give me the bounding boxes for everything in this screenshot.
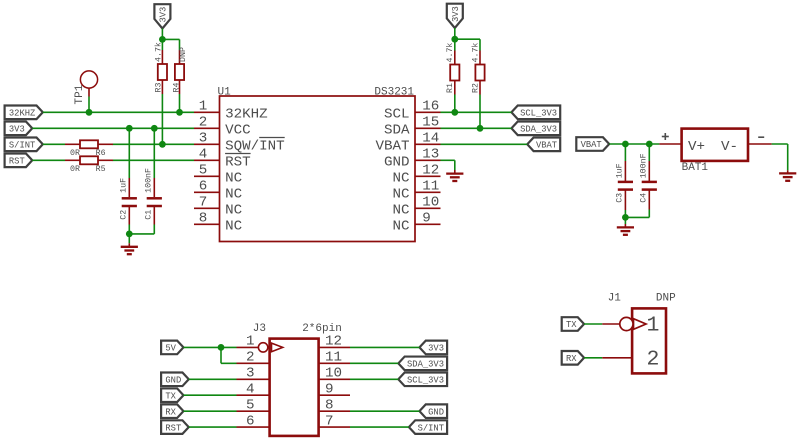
U1 pin 3 stub (194, 143, 220, 145)
U1 pin 8 stub (194, 223, 220, 225)
J3 pin 1 stub (237, 346, 270, 348)
U1 pin 4 number (199, 147, 208, 163)
svg-text:BAT1: BAT1 (682, 162, 709, 174)
svg-text:3V3: 3V3 (9, 125, 25, 135)
svg-text:13: 13 (422, 147, 439, 163)
svg-text:3: 3 (199, 131, 208, 147)
svg-text:VCC: VCC (225, 122, 251, 138)
U1 pin 3 name SQW/INT (225, 138, 285, 154)
U1 pin 4 stub (194, 159, 220, 161)
junction VBAT/C3 (622, 141, 629, 148)
R4 value DNP (179, 47, 188, 62)
BAT1 pin V- (721, 139, 738, 155)
U1 pin 9 stub (415, 223, 441, 225)
net flag S/INT (5, 138, 43, 152)
svg-text:12: 12 (325, 334, 342, 350)
R2 name (471, 83, 480, 93)
junction C3/C4/GND (622, 214, 629, 221)
svg-text:TP1: TP1 (74, 84, 86, 104)
U1 pin 16 name SCL (384, 106, 410, 122)
J3 pin 10 number (325, 366, 342, 382)
svg-text:SQW/INT: SQW/INT (225, 138, 285, 154)
J3 pin 10 stub (319, 378, 350, 380)
U1 pin 7 number (199, 195, 208, 211)
wire GND pin13 (441, 160, 455, 173)
resistor R1 (450, 51, 459, 95)
U1 pin 2 number (199, 115, 208, 131)
U1 pin 16 number (422, 99, 439, 115)
svg-text:TX: TX (165, 391, 176, 401)
svg-text:8: 8 (199, 211, 208, 227)
U1 pin 14 number (422, 131, 439, 147)
svg-text:3V3: 3V3 (159, 7, 169, 23)
supply symbol 3V3 (right) (447, 4, 463, 28)
C1 name (144, 210, 153, 220)
wire RX to pin5 (183, 410, 236, 412)
svg-text:1uF: 1uF (119, 178, 128, 193)
svg-text:SDA: SDA (384, 122, 410, 138)
test point TP1 pad (80, 71, 97, 88)
battery BAT1 right lead (748, 143, 772, 145)
U1 pin 5 number (199, 163, 208, 179)
capacitor C1 (147, 198, 162, 206)
svg-text:NC: NC (392, 170, 409, 186)
svg-text:SDA_3V3: SDA_3V3 (520, 125, 557, 135)
C3 value 1uF (616, 163, 625, 178)
svg-text:DNP: DNP (656, 293, 676, 305)
net flag VBAT (battery) (576, 137, 609, 151)
wire to ground (C3 C4) (624, 217, 626, 227)
overline on INT of SQW/INT (259, 137, 285, 139)
svg-text:8: 8 (325, 397, 334, 413)
U1 pin 14 stub (415, 143, 441, 145)
svg-text:GND: GND (165, 375, 181, 385)
junction 3V3/R1/R2 (451, 36, 458, 43)
svg-text:9: 9 (325, 382, 334, 398)
net flag TX (J1) (562, 317, 584, 331)
wire jog to R2 (455, 39, 480, 50)
connector J3 body (270, 339, 319, 436)
wire R3 top (161, 39, 163, 50)
net flag SDA_3V3 (511, 122, 560, 136)
wire SDA row (441, 127, 512, 129)
U1 pin 1 stub (194, 111, 220, 113)
R1 value 4.7k (445, 43, 455, 63)
wire pin12 to 3V3 (350, 346, 419, 348)
svg-text:1: 1 (246, 334, 255, 350)
svg-text:R3: R3 (155, 83, 164, 93)
svg-text:2: 2 (199, 115, 208, 131)
svg-text:7: 7 (199, 195, 208, 211)
ground (battery) (779, 173, 796, 180)
wire C4 bottom (625, 190, 649, 218)
svg-text:VBAT: VBAT (581, 140, 602, 150)
battery BAT1 body (682, 129, 748, 161)
svg-text:J1: J1 (608, 293, 622, 305)
U1 pin 12 stub (415, 175, 441, 177)
junction VCC/C2 (126, 125, 133, 132)
resistor R5 (65, 156, 113, 164)
U1 pin 13 name GND (384, 154, 410, 170)
wire R5 to pin4 (113, 159, 194, 161)
svg-text:15: 15 (422, 115, 439, 131)
svg-text:0R: 0R (70, 165, 80, 174)
J3 pin 6 stub (237, 426, 270, 428)
net flag 32KHZ (5, 106, 43, 120)
J1 name label (608, 293, 622, 305)
ground (under C1 C2) (121, 247, 138, 254)
C4 name (640, 193, 649, 203)
junction 5V/pin2 (218, 344, 225, 351)
wire pin8 to GND (350, 410, 419, 412)
svg-text:SCL: SCL (384, 106, 410, 122)
U1 pin 7 name NC (225, 202, 242, 218)
J3 pin 7 number (325, 413, 334, 429)
svg-text:5: 5 (246, 397, 255, 413)
svg-text:16: 16 (422, 99, 439, 115)
ground (pin 13) (446, 174, 463, 181)
U1 pin 11 number (422, 179, 439, 195)
U1 pin 5 name NC (225, 170, 242, 186)
svg-text:1: 1 (647, 314, 660, 338)
svg-text:14: 14 (422, 131, 439, 147)
U1 pin 8 number (199, 211, 208, 227)
svg-text:NC: NC (225, 170, 242, 186)
J3 value label 2*6pin (302, 323, 342, 335)
wire GND to pin3 (189, 378, 237, 380)
svg-text:6: 6 (199, 179, 208, 195)
wire pin11 to SDA_3V3 (350, 362, 398, 364)
svg-text:1uF: 1uF (616, 163, 625, 178)
J3 pin 7 stub (319, 426, 350, 428)
svg-text:V-: V- (721, 139, 738, 155)
J1 value label DNP (656, 293, 676, 305)
wire 5V to pin2 (221, 347, 237, 363)
svg-text:DNP: DNP (179, 47, 188, 62)
wire R3 bottom to SQW (161, 94, 163, 144)
svg-text:C4: C4 (640, 193, 649, 203)
wire 3V3 supply stub (right) (454, 28, 456, 39)
svg-text:SDA_3V3: SDA_3V3 (407, 360, 444, 370)
wire TX to J1 pin1 (584, 323, 602, 325)
wire 3V3/VCC row (32, 127, 194, 129)
wire VBAT to C3 (624, 144, 626, 181)
U1 name label (218, 87, 232, 99)
J3 pin 5 stub (237, 410, 270, 412)
svg-text:VBAT: VBAT (536, 141, 557, 151)
wire pin7 to S/INT (350, 426, 409, 428)
svg-text:4.7k: 4.7k (154, 42, 164, 62)
svg-text:RST: RST (9, 157, 25, 167)
net flag VBAT (pin14) (527, 138, 560, 152)
J3 pin 5 number (246, 397, 255, 413)
svg-text:C1: C1 (144, 210, 153, 220)
U1 pin 11 stub (415, 191, 441, 193)
svg-text:C2: C2 (119, 210, 128, 220)
U1 pin 12 name NC (392, 170, 409, 186)
wire R2 bottom to SDA (479, 95, 481, 129)
overline on RST (225, 153, 251, 155)
C3 name (616, 193, 625, 203)
C2 name (119, 210, 128, 220)
wire VBAT to C4 (648, 144, 650, 181)
J1 pin 2 stub (602, 357, 632, 359)
net flag 5V (161, 341, 183, 355)
junction R3/SQW (159, 141, 166, 148)
J3 pin 12 number (325, 334, 342, 350)
wire R1 bottom to SCL (454, 95, 456, 113)
junction VBAT/C4 (646, 141, 653, 148)
R3 name (155, 83, 164, 93)
svg-text:9: 9 (422, 211, 431, 227)
svg-text:3V3: 3V3 (451, 6, 461, 22)
TP1 label (74, 84, 86, 104)
svg-text:S/INT: S/INT (9, 141, 35, 151)
junction R4/32KHZ (176, 109, 183, 116)
svg-text:4: 4 (246, 382, 255, 398)
U1 pin 12 number (422, 163, 439, 179)
supply symbol 3V3 (left) (154, 4, 170, 28)
U1 pin 5 stub (194, 175, 220, 177)
svg-text:100nF: 100nF (144, 168, 153, 193)
J1 pin 2 number (647, 348, 660, 372)
R6 value 0R (70, 149, 80, 158)
U1 pin 13 number (422, 147, 439, 163)
svg-text:NC: NC (392, 186, 409, 202)
resistor R6 (65, 140, 113, 148)
wire VBAT row (441, 143, 528, 145)
wire 3V3 supply stub (161, 29, 163, 40)
U1 pin 10 stub (415, 207, 441, 209)
U1 pin 2 stub (194, 127, 220, 129)
svg-text:U1: U1 (218, 87, 232, 99)
J3 pin 12 stub (319, 346, 350, 348)
U1 pin 6 name NC (225, 186, 242, 202)
U1 pin 13 stub (415, 159, 441, 161)
junction 3V3/R3/R4 (159, 36, 166, 43)
junction R2/SDA (477, 125, 484, 132)
R1 name (446, 83, 455, 93)
svg-text:GND: GND (428, 407, 444, 417)
svg-text:5: 5 (199, 163, 208, 179)
J3 pin 4 stub (237, 394, 270, 396)
svg-text:32KHZ: 32KHZ (9, 109, 35, 119)
wire SCL row (441, 111, 512, 113)
J3 pin1 marker triangle (272, 343, 283, 352)
U1 pin 15 name SDA (384, 122, 410, 138)
svg-text:C3: C3 (616, 193, 625, 203)
svg-text:R4: R4 (172, 83, 181, 93)
capacitor C4 (642, 182, 657, 190)
R3 value 4.7k (154, 42, 164, 62)
U1 pin 7 stub (194, 207, 220, 209)
J3 pin 8 stub (319, 410, 350, 412)
wire TX to pin4 (183, 394, 236, 396)
svg-text:2: 2 (246, 350, 255, 366)
svg-text:4.7k: 4.7k (445, 43, 455, 63)
battery minus sign (758, 136, 764, 138)
J3 pin 3 stub (237, 378, 270, 380)
net flag RST (5, 154, 33, 168)
svg-text:2: 2 (647, 348, 660, 372)
U1 value label DS3231 (374, 87, 414, 99)
U1 pin 11 name NC (392, 186, 409, 202)
net flag TX (J3) (161, 388, 183, 402)
net flag SCL_3V3 (511, 106, 560, 120)
svg-text:3V3: 3V3 (428, 344, 444, 354)
svg-text:11: 11 (422, 179, 439, 195)
svg-text:GND: GND (384, 154, 410, 170)
J3 pin 9 number (325, 382, 334, 398)
J3 pin 3 number (246, 366, 255, 382)
net flag 3V3 (5, 122, 33, 136)
J3 pin 4 number (246, 382, 255, 398)
svg-text:S/INT: S/INT (418, 423, 444, 433)
U1 pin 14 name VBAT (375, 138, 409, 154)
svg-text:SCL_3V3: SCL_3V3 (407, 375, 444, 385)
U1 pin 8 name NC (225, 218, 242, 234)
svg-text:6: 6 (246, 413, 255, 429)
U1 pin 10 number (422, 195, 439, 211)
J3 pin 1 number (246, 334, 255, 350)
battery BAT1 left lead (659, 143, 681, 145)
wire VBAT to battery (609, 143, 659, 145)
wire S/INT to R6 (43, 143, 65, 145)
J3 pin 6 number (246, 413, 255, 429)
svg-text:NC: NC (225, 202, 242, 218)
svg-text:RST: RST (225, 154, 251, 170)
IC U1 DS3231 body (220, 96, 416, 242)
J1 pin 1 number (647, 314, 660, 338)
net flag RX (J1) (562, 351, 584, 365)
U1 pin 2 name VCC (225, 122, 251, 138)
J3 pin 2 stub (237, 362, 270, 364)
net flag 3V3 (J3) (419, 341, 447, 355)
svg-text:12: 12 (422, 163, 439, 179)
junction VCC/C1 (151, 125, 158, 132)
wire VCC to C1 (153, 128, 155, 197)
test point TP1 wire (88, 88, 90, 112)
junction C1/C2/GND (126, 231, 133, 238)
wire C2 bottom (128, 206, 130, 234)
svg-text:R5: R5 (96, 165, 106, 174)
J1 pin 1 stub (602, 323, 632, 325)
net flag RST (J3) (161, 420, 189, 434)
capacitor C2 (122, 198, 137, 206)
C4 value 100nF (640, 153, 649, 178)
svg-text:RX: RX (566, 354, 577, 364)
U1 pin 4 name RST (225, 154, 251, 170)
net flag GND (J3) (161, 372, 189, 386)
resistor R3 (158, 50, 167, 94)
junction R1/SCL (451, 109, 458, 116)
wire 5V to pin1 (183, 346, 236, 348)
capacitor C3 (618, 182, 633, 190)
svg-text:NC: NC (392, 202, 409, 218)
U1 pin 15 number (422, 115, 439, 131)
wire battery minus to ground (772, 144, 788, 173)
svg-text:R2: R2 (471, 83, 480, 93)
wire RX to J1 pin2 (584, 357, 602, 359)
U1 pin 10 name NC (392, 202, 409, 218)
svg-text:RST: RST (165, 423, 181, 433)
wire R4 bottom to 32KHZ (179, 94, 181, 112)
net flag SCL_3V3 (J3) (398, 372, 447, 386)
wire C3 bottom (624, 190, 626, 218)
U1 pin 1 name 32KHZ (225, 106, 268, 122)
wire 32KHZ row (43, 111, 194, 113)
svg-text:J3: J3 (253, 323, 266, 335)
J3 pin 9 stub (319, 394, 350, 396)
wire jog to R4 (162, 39, 179, 50)
svg-text:V+: V+ (688, 139, 705, 155)
net flag GND (J3 right) (419, 404, 447, 418)
svg-text:RX: RX (165, 407, 176, 417)
battery plus sign (662, 133, 669, 140)
ground (under C3 C4) (617, 227, 634, 234)
BAT1 name label (682, 162, 709, 174)
R4 name (172, 83, 181, 93)
R5 value 0R (70, 165, 80, 174)
resistor R4 (175, 50, 184, 94)
junction TP1/32KHZ (86, 109, 93, 116)
svg-text:4: 4 (199, 147, 208, 163)
wire pin10 to SCL_3V3 (350, 378, 398, 380)
R5 name (96, 165, 106, 174)
resistor R2 (475, 51, 484, 95)
wire RST to R5 (32, 159, 65, 161)
J3 pin 2 number (246, 350, 255, 366)
R6 name (96, 149, 106, 158)
J3 pin1 marker circle (258, 343, 267, 352)
connector J1 body (632, 308, 666, 373)
wire C1 bottom (129, 206, 154, 234)
svg-text:TX: TX (566, 320, 577, 330)
svg-text:DS3231: DS3231 (374, 87, 414, 99)
J1 pin1 marker triangle (634, 319, 647, 330)
svg-text:R1: R1 (446, 83, 455, 93)
net flag RX (J3) (161, 404, 183, 418)
wire to ground (caps) (128, 234, 130, 247)
svg-text:SCL_3V3: SCL_3V3 (520, 109, 557, 119)
U1 pin 9 name NC (392, 218, 409, 234)
U1 pin 3 number (199, 131, 208, 147)
svg-text:3: 3 (246, 366, 255, 382)
C2 value 1uF (119, 178, 128, 193)
U1 pin 6 number (199, 179, 208, 195)
wire R1 top (454, 39, 456, 50)
J3 pin 11 number (325, 350, 342, 366)
svg-text:VBAT: VBAT (375, 138, 409, 154)
J1 pin1 marker circle (620, 317, 633, 330)
svg-text:100nF: 100nF (640, 153, 649, 178)
J3 name label (253, 323, 266, 335)
U1 pin 6 stub (194, 191, 220, 193)
R2 value 4.7k (470, 43, 480, 63)
U1 pin 16 stub (415, 111, 441, 113)
svg-text:5V: 5V (165, 344, 176, 354)
U1 pin 9 number (422, 211, 431, 227)
svg-text:0R: 0R (70, 149, 80, 158)
svg-text:NC: NC (225, 218, 242, 234)
C1 value 100nF (144, 168, 153, 193)
wire R6 to pin3 (113, 143, 194, 145)
svg-text:32KHZ: 32KHZ (225, 106, 268, 122)
J3 pin 8 number (325, 397, 334, 413)
net flag SDA_3V3 (J3) (398, 357, 447, 371)
svg-text:1: 1 (199, 99, 208, 115)
J3 pin 11 stub (319, 362, 350, 364)
